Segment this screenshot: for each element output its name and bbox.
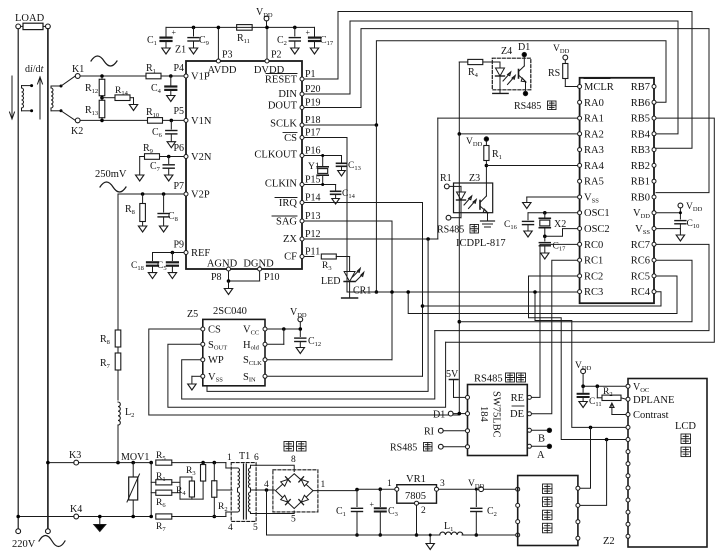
svg-text:B: B — [538, 434, 545, 445]
wire DI drop — [458, 134, 460, 414]
resistor R1 opto — [485, 141, 487, 145]
pin MCU RA2 — [578, 132, 582, 136]
potentiometer R2 — [602, 395, 621, 400]
svg-text:RC2: RC2 — [584, 271, 603, 282]
pin P20 — [300, 92, 304, 96]
pin V2N — [184, 155, 188, 159]
pin P17 — [300, 136, 304, 140]
node C3 bottom — [379, 533, 383, 537]
svg-text:1: 1 — [321, 480, 326, 490]
svg-text:K3: K3 — [69, 450, 81, 461]
terminal K2 — [75, 118, 80, 123]
svg-text:CS: CS — [208, 325, 221, 336]
wire R2 to T1 tap — [217, 489, 232, 491]
svg-text:AVDD: AVDD — [208, 65, 237, 76]
wire RS485 gnd — [443, 446, 465, 448]
node RC6 tap — [458, 320, 462, 324]
resistor R3 — [321, 254, 336, 259]
pin MCU Vdd — [652, 211, 656, 215]
svg-text:2: 2 — [421, 506, 426, 516]
svg-text:P18: P18 — [305, 115, 321, 126]
svg-text:220V: 220V — [12, 539, 36, 550]
node P13 RC3 — [390, 290, 394, 294]
svg-text:RS485: RS485 — [474, 374, 503, 385]
capacitor C3 polarized — [379, 489, 381, 506]
pin P19 — [300, 106, 304, 110]
svg-text:RB0: RB0 — [631, 193, 650, 204]
wire P14 to Z5 SIN — [304, 203, 423, 377]
terminal D1 RS485 — [448, 411, 453, 416]
optocoupler Z3 box — [454, 183, 493, 213]
wire tap to 0V — [266, 490, 268, 535]
capacitor C5 — [171, 253, 173, 261]
Z4 LED — [496, 68, 505, 76]
wire R4 to Z4 — [483, 61, 500, 63]
node C2b bottom — [475, 533, 479, 537]
svg-text:RA5: RA5 — [584, 177, 604, 188]
svg-text:LOAD: LOAD — [15, 13, 45, 24]
ground arrow 0V — [429, 535, 431, 543]
varistor MOV1 — [131, 461, 135, 465]
node C7 — [167, 155, 171, 159]
node D1 RA2 — [458, 412, 462, 416]
pin LCD d5 — [626, 486, 630, 490]
svg-text:Contrast: Contrast — [633, 410, 669, 421]
svg-text:CLKIN: CLKIN — [265, 179, 297, 190]
pin MCU RA1 — [578, 116, 582, 120]
regulator VR1 box — [397, 485, 437, 504]
svg-text:MCLR: MCLR — [584, 82, 614, 93]
pin RTC r3 — [576, 520, 580, 524]
svg-text:7805: 7805 — [405, 491, 426, 502]
svg-text:ZX: ZX — [283, 234, 297, 245]
svg-text:K4: K4 — [70, 504, 82, 515]
svg-text:Z2: Z2 — [603, 536, 615, 547]
wire RC0 to RE — [532, 244, 578, 397]
svg-text:P11: P11 — [305, 247, 320, 258]
wire K3 row — [48, 462, 74, 464]
resistor R1 — [146, 73, 161, 79]
svg-text:AGND: AGND — [207, 259, 238, 270]
pin MCU RC1 — [578, 258, 582, 262]
wire VDD pin — [656, 212, 680, 214]
pin MCU RB6 — [652, 100, 656, 104]
svg-text:RS485: RS485 — [437, 225, 464, 236]
pin MCU RA0 — [578, 100, 582, 104]
pin P13 — [300, 219, 304, 223]
capacitor C14 — [335, 185, 337, 191]
svg-text:5V: 5V — [446, 369, 459, 380]
ground C14 — [332, 199, 340, 205]
ground C1 — [162, 48, 170, 54]
node C2b — [475, 488, 478, 491]
terminal RI — [438, 428, 443, 433]
T1 primary — [234, 467, 238, 469]
resistor R13 — [99, 100, 105, 118]
inductor L1 — [440, 532, 463, 535]
wire R2 left — [596, 386, 598, 398]
svg-text:WP: WP — [208, 355, 224, 366]
capacitor C4 — [170, 76, 172, 85]
wire P15 to C14 — [304, 184, 336, 186]
svg-text:P4: P4 — [173, 63, 184, 74]
ground C4 — [167, 96, 175, 102]
ground MCU VSS — [523, 203, 531, 209]
wire 0V rail — [267, 534, 440, 536]
resistor R5 — [156, 460, 172, 465]
ground C10 — [676, 235, 684, 241]
terminal K4 — [74, 514, 79, 519]
svg-text:RB2: RB2 — [631, 161, 650, 172]
resistor R3b — [202, 463, 204, 465]
node Y1 top — [321, 154, 324, 157]
current arrow down — [11, 76, 13, 118]
di/dt pickup coil — [22, 88, 24, 108]
pin VOC — [626, 384, 630, 388]
wire Z5 Hold tie — [267, 343, 284, 345]
pin Z5 SOUT — [201, 342, 205, 346]
capacitor C9 — [193, 27, 195, 36]
svg-text:P16: P16 — [305, 146, 321, 157]
wire bus P1 top — [304, 12, 692, 149]
svg-text:184: 184 — [478, 406, 489, 423]
svg-text:2SC040: 2SC040 — [213, 306, 247, 317]
resistor R2b — [213, 463, 215, 481]
pin B — [527, 428, 531, 432]
svg-text:P12: P12 — [305, 229, 321, 240]
resistor R7 chain — [115, 353, 121, 370]
pin MCU OSC1 — [578, 211, 582, 215]
label SAG — [272, 215, 297, 217]
wire loop top — [207, 239, 428, 391]
wire VSS pin — [656, 228, 680, 230]
svg-text:CLKOUT: CLKOUT — [254, 150, 297, 161]
metering IC Z1 box — [186, 61, 302, 269]
LED arrows — [353, 270, 361, 278]
pin MCU RB4 — [652, 132, 656, 136]
ground bar LED — [342, 297, 358, 299]
pin RS485 2 — [466, 412, 470, 416]
ground C12 — [296, 348, 304, 354]
resistor R10 — [148, 118, 163, 124]
capacitor C11 — [582, 386, 584, 392]
node C1b bottom — [355, 533, 359, 537]
svg-text:OSC1: OSC1 — [584, 208, 610, 219]
node C5 — [171, 251, 175, 255]
wire RTC2 branch — [580, 440, 606, 506]
pin V1N — [184, 118, 188, 122]
pin RS485 4 — [466, 445, 470, 449]
svg-text:V1N: V1N — [191, 116, 212, 127]
wire OSC1 — [528, 212, 578, 214]
wire VDD rail — [166, 26, 315, 28]
pin LCD d9 — [626, 534, 630, 538]
Z4 transistor — [523, 57, 525, 66]
svg-text:RC0: RC0 — [584, 240, 603, 251]
label LCD CJK — [681, 434, 691, 444]
terminal 220V left — [16, 529, 21, 534]
svg-text:V2P: V2P — [191, 190, 210, 201]
node R12/R13 — [100, 96, 104, 100]
svg-text:P20: P20 — [305, 84, 321, 95]
pin LCD d2 — [626, 450, 630, 454]
capacitor C17b — [544, 236, 546, 241]
node P3 rail — [217, 26, 221, 30]
terminal Z4 emitter — [523, 91, 527, 95]
capacitor C18 — [147, 261, 158, 263]
wire Z5 VCC — [267, 328, 300, 330]
wire RC4 loop — [423, 292, 662, 306]
sine symbol 250mV — [100, 182, 126, 192]
ground C16 — [524, 231, 532, 237]
pin MCU OSC2 — [578, 227, 582, 231]
node RTC2 branch — [605, 438, 609, 442]
wire Z5 SIN out — [267, 375, 423, 377]
ground P8 — [224, 289, 232, 295]
terminal VDD MCU — [678, 203, 683, 208]
pin MCU RC2 — [578, 274, 582, 278]
svg-text:K2: K2 — [71, 126, 83, 137]
bridge box — [273, 470, 318, 512]
pin RTC l2 — [516, 503, 520, 507]
pin Z5 VCC right — [263, 327, 267, 331]
svg-text:A: A — [537, 450, 545, 461]
svg-text:Z3: Z3 — [469, 173, 480, 184]
ground bar Z4 — [493, 92, 508, 94]
resistor R8 — [142, 194, 144, 203]
label IRQ — [275, 197, 297, 199]
wire RS to MCLR — [565, 86, 577, 88]
node x376/rc3row — [375, 290, 379, 294]
svg-text:IRQ: IRQ — [279, 198, 298, 209]
node C11 — [581, 384, 585, 388]
svg-text:di/dt: di/dt — [25, 64, 44, 75]
pin P11 — [300, 255, 304, 259]
capacitor C10 — [675, 220, 686, 222]
svg-text:V2N: V2N — [191, 152, 212, 163]
earth ground K4 — [99, 517, 101, 525]
node R2 bottom — [213, 515, 217, 519]
wire VDD to C12 — [299, 322, 301, 337]
ground C5 — [168, 273, 176, 279]
wire P12 row — [304, 238, 438, 240]
svg-text:P15: P15 — [305, 175, 321, 186]
wire T1 sec tap — [251, 489, 267, 491]
wire P13 to Z5 SCLK — [304, 221, 392, 360]
svg-text:Z4: Z4 — [501, 46, 512, 57]
resistor R11 — [237, 25, 253, 31]
pin RTC r2 — [576, 503, 580, 507]
pin V1P — [184, 74, 188, 78]
svg-text:5: 5 — [253, 523, 258, 533]
terminal RS485 gnd — [438, 444, 443, 449]
pin REF — [184, 251, 188, 255]
resistor R6 — [151, 492, 156, 494]
label RTC CJK — [543, 484, 553, 494]
pin VR1 2 — [415, 501, 419, 505]
svg-text:LED: LED — [321, 276, 340, 287]
Z3 transistor — [479, 201, 481, 210]
node RC3 drop — [533, 290, 537, 294]
svg-text:RA4: RA4 — [584, 161, 605, 172]
wire RC1 to DE — [532, 260, 578, 414]
svg-text:P8: P8 — [211, 272, 222, 283]
svg-text:RS485: RS485 — [390, 443, 417, 454]
capacitor C17 polarized — [314, 27, 316, 36]
pin LCD d0 — [626, 425, 630, 429]
svg-text:RA2: RA2 — [584, 129, 604, 140]
wire Z5 SCLK out — [267, 359, 392, 361]
node R3 top — [201, 461, 205, 465]
svg-text:+: + — [306, 28, 311, 37]
wire R1 term — [449, 185, 461, 187]
pin Z5 WP — [201, 358, 205, 362]
node C8 top — [162, 192, 166, 196]
pin RTC 0V — [516, 533, 520, 537]
wire RC2 to LCD — [529, 276, 627, 440]
node C4 — [169, 74, 173, 78]
resistor R7b — [156, 514, 172, 519]
svg-text:VR1: VR1 — [406, 474, 426, 485]
svg-text:P14: P14 — [305, 193, 321, 204]
pin LCD d8 — [626, 522, 630, 526]
ground C18 — [148, 273, 156, 279]
pin MCU RC4 — [652, 290, 656, 294]
ground C6 — [167, 142, 175, 148]
svg-text:RC5: RC5 — [631, 271, 650, 282]
svg-text:CS: CS — [284, 133, 297, 144]
node C2 — [293, 26, 297, 30]
ground R8 — [138, 226, 146, 232]
pin A — [527, 444, 531, 448]
bridge diode 3 — [280, 495, 290, 505]
wire RI — [443, 430, 465, 432]
RTC box — [518, 476, 578, 546]
svg-text:6: 6 — [254, 453, 259, 463]
node RTC1 branch — [589, 426, 593, 430]
svg-text:1: 1 — [387, 479, 392, 489]
inductor L2 — [118, 402, 120, 425]
capacitor C7 — [168, 157, 170, 164]
resistor R8 chain — [115, 330, 121, 347]
svg-text:Z1: Z1 — [175, 45, 186, 56]
pin P16 — [300, 154, 304, 158]
wire Z3 emitter ground — [487, 213, 489, 221]
wire Z5 CS loop — [149, 329, 460, 415]
node R2 left — [596, 384, 600, 388]
svg-text:RC4: RC4 — [631, 287, 651, 298]
svg-text:RS: RS — [548, 68, 560, 79]
pin MCU RA4 — [578, 163, 582, 167]
pin MCU RB1 — [652, 179, 656, 183]
wire A — [532, 445, 550, 447]
ground C11 — [579, 402, 587, 408]
ground R14 — [129, 105, 137, 111]
svg-text:R1: R1 — [440, 173, 452, 184]
ground Z3 — [481, 220, 495, 222]
pin RTC r4 — [576, 536, 580, 540]
pin P3 — [216, 59, 220, 63]
pin P15 — [300, 183, 304, 187]
wire K4 to T1 — [172, 516, 226, 518]
wire VR1 gnd — [416, 505, 418, 535]
LCD box — [628, 379, 707, 548]
svg-text:P13: P13 — [305, 211, 321, 222]
wire R3 to LED — [336, 256, 349, 258]
resistor R1b — [151, 481, 156, 483]
svg-text:RC7: RC7 — [631, 240, 650, 251]
ground C2 — [291, 48, 299, 54]
MCU Z? box — [580, 78, 654, 303]
svg-text:DE: DE — [510, 409, 524, 420]
label CS — [283, 132, 297, 134]
pin LCD d3 — [626, 462, 630, 466]
transformer T1 box — [231, 463, 256, 522]
node R2 top — [213, 461, 217, 465]
capacitor C2 — [294, 27, 296, 36]
R2 wiper — [611, 404, 613, 415]
wire RA2 to DI vertical — [459, 133, 577, 135]
svg-text:SW75LBC: SW75LBC — [491, 391, 502, 438]
wire P3 stub — [217, 27, 219, 59]
wire RA1 vertical — [437, 118, 439, 239]
wire X2 to OSC2 — [545, 229, 578, 237]
terminal Z3 bottom — [446, 215, 451, 220]
wire vertical x376 lower — [375, 125, 377, 292]
svg-text:RA3: RA3 — [584, 145, 604, 156]
svg-text:DOUT: DOUT — [268, 101, 298, 112]
svg-text:3: 3 — [440, 479, 445, 489]
wire VDD stub — [679, 208, 681, 219]
pin Z5 SIN right — [263, 374, 267, 378]
svg-text:SAG: SAG — [276, 217, 297, 228]
wire RC6 loop — [459, 260, 692, 322]
terminal VDD rail — [479, 487, 484, 492]
pin MCU RC3 — [578, 290, 582, 294]
wire DC+ rail — [313, 490, 357, 492]
node C3 — [379, 487, 383, 491]
wire T1 sec bottom to bridge — [251, 511, 295, 514]
pin RTC r1 — [576, 486, 580, 490]
T1 core — [243, 464, 245, 519]
label RESET — [266, 73, 297, 75]
terminal VDD RS — [563, 55, 568, 60]
terminal right of LOAD — [46, 24, 51, 29]
svg-text:DPLANE: DPLANE — [633, 395, 674, 406]
svg-text:SCLK: SCLK — [270, 119, 297, 130]
svg-text:RI: RI — [424, 427, 434, 438]
wire Z5 VSS — [192, 375, 201, 377]
node P12 loop — [426, 237, 430, 241]
wire bus P20 top — [304, 21, 678, 134]
resistor R9 — [145, 154, 160, 160]
terminal K3 — [74, 460, 79, 465]
svg-text:K1: K1 — [72, 64, 84, 75]
capacitor C1 — [165, 27, 167, 36]
wire VDD to P2 — [266, 21, 268, 28]
svg-text:RC6: RC6 — [631, 256, 650, 267]
pin MCU Vss — [578, 195, 582, 199]
svg-text:4: 4 — [228, 523, 233, 533]
svg-text:P10: P10 — [264, 272, 280, 283]
svg-text:+: + — [370, 500, 375, 509]
node R7b left — [149, 515, 153, 519]
svg-text:D1: D1 — [433, 410, 445, 421]
node K4 conductor — [16, 515, 20, 519]
svg-text:P1: P1 — [305, 69, 316, 80]
pin Z5 VSS — [201, 374, 205, 378]
sensor secondary coil — [51, 88, 53, 108]
